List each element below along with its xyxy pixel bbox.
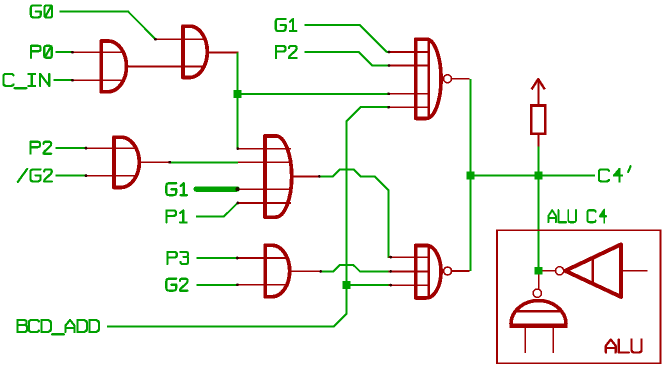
link J5 down to NAND bubble [538,275,540,289]
label G0 [31,5,52,17]
wire C_IN [54,79,74,81]
label P1 [167,210,187,222]
wire P1 [196,203,238,216]
label P2 (top right) [276,46,297,58]
wire /G2 [56,175,87,177]
U7 output pin [452,270,470,272]
resistor R1 body [531,105,545,133]
label P0 [31,46,52,58]
U3 output pin [140,161,170,163]
U2 input pin 1 [156,38,206,40]
U4 input pin 1 [238,148,291,150]
U7 output bubble [444,267,452,275]
wire down to ALU sheet [538,176,540,268]
wire C4 horizontal [470,175,595,177]
wire P2 [56,147,87,149]
wire P2 to U6 input 2 [305,52,390,65]
wire P3 [196,257,238,259]
U6 input pin 1 [389,51,429,53]
power arrow (VCC) [532,79,545,89]
inverter inner bar [592,258,594,284]
U6 input pin 4 [389,106,429,108]
U6 input pin 3 [389,93,429,95]
NAND-up inner line [515,310,561,312]
U1 output pin to U2 [127,65,206,67]
U1 input pin P0 [73,51,126,53]
wire U6 out down / U7 out up (vertical bus) [469,79,471,271]
label BCD_ADD [18,320,99,334]
junction J3 [466,172,474,180]
label G1 (top right) [276,19,297,31]
U4 input pin 3 [238,188,292,190]
wire U5 out: hop, to U7 input 2 [321,265,392,272]
NAND-up leg 2 [552,328,554,353]
U4 input pin 4 [238,202,291,204]
NAND-up bottom bar [510,324,568,328]
U7 inner bar [428,246,430,297]
ALU sheet box [497,230,661,363]
NAND-up leg 1 [524,328,526,353]
U6 inner bar [428,40,430,118]
label ALU (sheet name) [606,340,642,353]
inverter bubble [556,267,564,275]
NAND gate U7 (3-input) body [416,245,441,298]
NAND-up bubble [533,289,541,297]
label ALU C4 [548,210,606,223]
junction J4 (pullup tap) [535,172,543,180]
U7 input pin 3 [389,284,429,286]
U5 input pin G2 [237,284,289,286]
link J5 to inverter bubble [543,270,556,272]
AND gate U3 (P2,/G2) body [114,137,139,187]
junction J1 [234,90,242,98]
U6 output bubble [444,75,452,83]
U3 input pin /G2 [86,175,138,177]
inverter U8 triangle [565,244,621,297]
AND gate U2 body [183,26,207,77]
wire G0 [60,11,156,39]
U4 output pin [292,176,320,178]
wire U4 out: hop over vertical, down to U7 input 1 [319,169,391,257]
wire BCD_ADD [107,107,389,326]
resistor R1 top lead [537,80,539,106]
label P2 (left) [31,142,52,154]
label P3 [167,252,188,264]
U2 output pin [208,51,239,53]
wire J1 to U6 input 3 [238,93,390,95]
label /G2 [18,169,52,182]
thick wire G1 [196,186,237,191]
wire U3 out to U4 input 2 [170,161,238,163]
pin-end dots [71,51,74,54]
label G2 [166,279,187,291]
U1 input pin C_IN [73,79,126,81]
NAND gate U6 (4-input) body [416,39,441,118]
U6 output pin [452,78,470,80]
label C4' [599,166,631,181]
U4 input pin 2 [238,161,292,163]
resistor R1 bottom lead [537,134,539,147]
junction J5 (inside ALU) [535,267,543,275]
junction J2 (BCD net / U7 in3) [343,281,351,289]
U5 input pin P3 [237,257,289,259]
label C_IN [4,74,50,88]
wire U2 out down to junction and gate U4 [237,52,240,148]
inverter output line [623,270,647,272]
label G1 (mid) [166,183,187,195]
U6 input pin 2 [389,65,429,67]
wire G1 to U6 input 1 [305,25,390,52]
U7 input pin 1 [389,256,429,258]
AND gate U1 (P0,C_IN) body [101,41,126,92]
U7 input pin 2 [389,270,429,272]
wire J2 to U7 input 3 [347,284,391,286]
NAND-up dome body [511,301,566,325]
U5 output pin [290,270,321,272]
wire G2 [196,284,238,286]
wire P0 [56,51,74,53]
U3 input pin P2 [86,147,138,149]
wire pullup to junction [538,146,540,176]
AND gate U5 (P3,G2) body [265,245,290,297]
AND gate U4 (4-input) body [265,136,292,217]
